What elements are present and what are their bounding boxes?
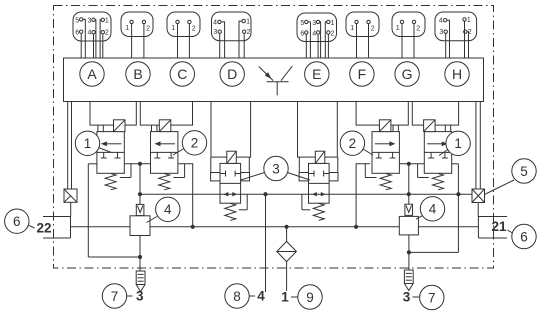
svg-text:9: 9: [306, 290, 314, 305]
junction dot left pair: [138, 162, 142, 166]
svg-text:2: 2: [146, 26, 150, 33]
junction dot right pilot: [407, 192, 411, 196]
svg-text:1: 1: [105, 17, 109, 24]
svg-text:8: 8: [233, 289, 241, 304]
wire valve2 to bus: [179, 164, 193, 227]
svg-text:F: F: [358, 66, 367, 82]
svg-text:1: 1: [467, 17, 471, 24]
wires connector X2 to manifold: [132, 24, 144, 58]
svg-text:2: 2: [416, 26, 420, 33]
svg-text:3: 3: [439, 29, 443, 36]
connector X5 (above E, 6-pin): [297, 13, 337, 42]
connector X2 (above B, 2-pin): [121, 12, 153, 37]
connector X7 (above G, 2-pin): [392, 12, 425, 37]
enclosure boundary (dash-dot): [54, 6, 494, 269]
callout 7 (left) with label 3: [102, 284, 144, 308]
svg-text:1: 1: [396, 25, 400, 32]
svg-text:2: 2: [191, 136, 199, 151]
wires connector X7 to manifold: [402, 24, 414, 58]
filter 8 (center): [277, 227, 297, 291]
station circle A: [80, 62, 104, 86]
wires connector X5 to manifold: [306, 22, 328, 58]
callout 4 (left): [156, 197, 180, 221]
callout 4 (right) leader: [416, 214, 426, 219]
svg-text:6: 6: [13, 214, 21, 229]
svg-text:6: 6: [300, 31, 304, 38]
wires connector X1 to manifold: [81, 19, 103, 58]
svg-text:6: 6: [75, 30, 79, 37]
label 21 with callout 6 (right): [491, 219, 536, 249]
station circle B: [126, 62, 150, 86]
junction dot bus filter: [285, 225, 289, 229]
svg-text:1: 1: [125, 25, 129, 32]
callout 2 (left) leader: [173, 149, 184, 156]
callout 2 (right): [340, 131, 364, 155]
svg-text:2: 2: [349, 136, 357, 151]
proportional valve 3 (right): [299, 151, 338, 220]
station circle G: [395, 62, 419, 86]
svg-text:G: G: [402, 66, 413, 82]
wires connector X8 to manifold: [446, 20, 469, 58]
drain wire right: [409, 164, 459, 270]
wire valve2R to bus: [356, 164, 370, 227]
svg-text:C: C: [177, 66, 187, 82]
connector X8 (above H, 4-pin): [435, 12, 477, 41]
pilot check valve 4 (right): [399, 204, 418, 235]
svg-text:B: B: [133, 66, 142, 82]
svg-text:5: 5: [75, 17, 79, 24]
svg-text:6: 6: [520, 229, 528, 244]
junction dot gallery right end: [456, 192, 460, 196]
main pressure bus: [71, 226, 479, 228]
callout 1 (right): [446, 131, 470, 155]
callout 4 (left) leader: [147, 217, 158, 223]
junction dot drain left: [138, 255, 142, 259]
svg-text:3: 3: [213, 29, 217, 36]
wire valve1 left to drain drop: [88, 163, 97, 165]
manifold block with stations A-H: [64, 58, 484, 102]
sub-block right B: [356, 102, 408, 126]
svg-text:E: E: [312, 66, 321, 82]
svg-text:4: 4: [164, 202, 172, 217]
solenoid valve 1 (right): [418, 120, 452, 190]
junction dot right pair: [407, 162, 411, 166]
plug/test point left: [64, 189, 77, 217]
port 22 (left): [43, 217, 71, 239]
wire bus between valves 2 and 1 (right): [398, 163, 424, 165]
sub-block left B: [140, 102, 192, 126]
callout 1 (left) leader: [97, 147, 112, 153]
callout 3 leaders: [241, 173, 310, 181]
callout 6 (left) with label 22: [5, 209, 52, 235]
wire bus between valves 1 and 2 (left): [124, 163, 150, 165]
callout 2 (left): [182, 131, 206, 155]
station circle E: [305, 62, 329, 86]
svg-text:5: 5: [300, 20, 304, 27]
wires connector X6 to manifold: [357, 24, 369, 58]
svg-text:3: 3: [403, 289, 411, 304]
svg-text:3: 3: [87, 17, 91, 24]
svg-text:1: 1: [246, 19, 250, 26]
svg-text:A: A: [87, 66, 97, 82]
svg-text:22: 22: [36, 220, 51, 235]
connector X1 (above A, 6-pin): [73, 12, 111, 41]
connector X4 (above D, 4-pin): [212, 12, 252, 41]
svg-text:3: 3: [272, 161, 280, 176]
solenoid valve 1 (left): [97, 120, 131, 190]
port 21 (right): [478, 217, 507, 239]
label 1 with callout 9: [281, 285, 322, 309]
station circle C: [170, 62, 194, 86]
station circle F: [350, 62, 374, 86]
callout 5 leader: [485, 180, 515, 195]
solenoid valve 2 (right): [365, 120, 399, 190]
callout 1 (right) leader: [439, 149, 450, 156]
drain fitting 3 (left): [136, 271, 145, 292]
svg-text:H: H: [452, 66, 462, 82]
svg-text:D: D: [227, 66, 237, 82]
callout 1 (left): [75, 131, 99, 155]
junction dot bus left: [191, 225, 195, 229]
wire port-4 drop (center): [265, 194, 267, 292]
svg-text:1: 1: [281, 290, 289, 305]
pilot check valve 4 (left): [130, 204, 150, 235]
svg-text:4: 4: [257, 289, 265, 304]
svg-text:5: 5: [520, 164, 528, 179]
svg-text:2: 2: [105, 30, 109, 37]
wires connector X3 to manifold: [178, 24, 190, 58]
junction dot drain right: [407, 250, 411, 254]
svg-text:2: 2: [247, 29, 251, 36]
callout 3: [264, 156, 288, 180]
callout 2 (right) leader: [362, 149, 373, 156]
twin gauge lines left: [68, 102, 72, 190]
svg-text:1: 1: [331, 20, 335, 27]
svg-text:4: 4: [439, 18, 443, 25]
sub-block left A: [90, 102, 136, 126]
connector X6 (above F, 2-pin): [346, 12, 379, 37]
sub-block center-left C (tall): [211, 102, 251, 158]
proportional valve 3 (left): [211, 151, 250, 220]
station circle D: [220, 62, 244, 86]
svg-text:2: 2: [192, 26, 196, 33]
solenoid valve 2 (left): [151, 120, 185, 190]
svg-text:3: 3: [136, 289, 144, 304]
svg-text:1: 1: [84, 136, 92, 151]
pilot gallery bus (middle): [140, 193, 472, 195]
svg-text:2: 2: [331, 31, 335, 38]
sub-block center-right D (tall): [298, 102, 338, 158]
svg-text:1: 1: [350, 25, 354, 32]
junction dot left pilot: [138, 192, 142, 196]
label 3 with callout 7 (right): [403, 285, 444, 309]
svg-text:4: 4: [213, 19, 217, 26]
svg-text:3: 3: [312, 20, 316, 27]
plug/test point 5 (right): [472, 189, 485, 217]
svg-text:21: 21: [491, 219, 507, 234]
electrical common symbol (center top): [259, 66, 293, 95]
svg-text:7: 7: [111, 289, 119, 304]
twin gauge lines right: [476, 102, 480, 190]
callout 8 with label 4: [225, 284, 265, 308]
wire vertical to pilot check left: [139, 164, 141, 205]
svg-text:4: 4: [87, 30, 91, 37]
callout 5: [512, 159, 536, 183]
svg-text:4: 4: [429, 202, 437, 217]
wires connector X4 to manifold: [220, 21, 245, 58]
drain fitting 3 (right): [404, 270, 413, 291]
junction dot gallery center: [263, 192, 267, 196]
svg-text:7: 7: [428, 290, 436, 305]
svg-text:4: 4: [312, 31, 316, 38]
wire valve1R right to drain drop: [452, 163, 459, 165]
svg-text:1: 1: [171, 25, 175, 32]
station circle H: [445, 62, 469, 86]
wire vertical to pilot check right: [408, 164, 410, 204]
callout 4 (right): [420, 197, 444, 221]
svg-text:2: 2: [371, 26, 375, 33]
svg-text:1: 1: [454, 136, 462, 151]
connector X3 (above C, 2-pin): [167, 12, 200, 37]
junction dot bus right: [354, 225, 358, 229]
sub-block right A: [412, 102, 458, 126]
drain wire left: [88, 164, 140, 271]
